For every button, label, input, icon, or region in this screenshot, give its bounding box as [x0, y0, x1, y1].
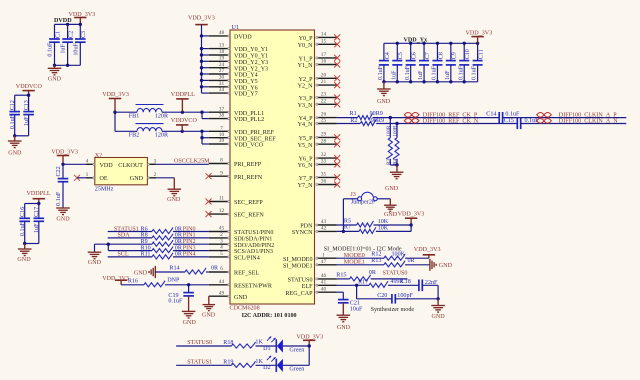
- svg-text:SCL/PIN4: SCL/PIN4: [234, 256, 260, 262]
- svg-text:100R: 100R: [394, 125, 399, 137]
- U1 pin 41 ELF: [302, 279, 337, 290]
- svg-text:ELF: ELF: [302, 284, 313, 290]
- svg-text:VDD_PLL1: VDD_PLL1: [234, 111, 264, 117]
- U1 pin 6 REF_SEL: [209, 266, 260, 277]
- wire FB2 to VDDVCO node: [162, 130, 209, 132]
- svg-text:R18: R18: [223, 340, 233, 346]
- U1 pin 9 PRI_REFN: [209, 170, 263, 181]
- junction VDD_Yx top rail: [409, 42, 412, 45]
- U1 pin 33 Y6_N: [298, 159, 337, 170]
- svg-text:OE: OE: [100, 176, 108, 182]
- capacitor C20 100pF (series): [377, 293, 413, 304]
- U1 pin 38 VDD_PLL2: [209, 113, 264, 124]
- no-connect X on oscillator OE: [74, 175, 80, 181]
- svg-text:43: 43: [321, 219, 327, 225]
- wire PDN to R5: [337, 224, 357, 226]
- junction ELF / C20 branch: [355, 284, 358, 287]
- wire Y4_P to R1: [337, 117, 358, 119]
- no-connect X on pin 15: [334, 41, 340, 47]
- junction VDD_Yx bottom rail: [396, 80, 399, 83]
- capacitor C6 0.1uF: [405, 43, 418, 82]
- capacitor C14 0.1uF (series): [486, 111, 520, 123]
- svg-text:VDDVCO: VDDVCO: [171, 118, 198, 124]
- svg-text:0.1uF: 0.1uF: [458, 65, 464, 80]
- svg-text:Synthesizer mode: Synthesizer mode: [371, 307, 415, 313]
- svg-text:R8: R8: [141, 233, 148, 239]
- svg-text:GND: GND: [234, 295, 248, 301]
- svg-text:STATUS1: STATUS1: [114, 226, 139, 232]
- svg-text:GND: GND: [130, 176, 144, 182]
- svg-text:GND: GND: [377, 99, 391, 105]
- junction bottom rail / C2: [66, 64, 69, 67]
- svg-text:Y0_P: Y0_P: [299, 36, 313, 42]
- U1 pin 39 VDD_VCO: [209, 138, 264, 149]
- power symbol VDD_3V3 (bead filters): [102, 92, 129, 112]
- svg-text:Y6_P: Y6_P: [299, 157, 313, 163]
- svg-text:SDI/SDA/PIN1: SDI/SDA/PIN1: [234, 237, 272, 243]
- junction power bus: [200, 85, 203, 88]
- svg-text:C18: C18: [401, 279, 411, 285]
- wire VDD to R16: [121, 284, 144, 286]
- svg-text:R15: R15: [336, 272, 346, 278]
- wire R19 to D2: [256, 364, 277, 366]
- U1 pin 11 SEC_REFP: [209, 196, 264, 207]
- capacitor C7 1uF: [418, 43, 431, 82]
- svg-text:Green: Green: [289, 367, 304, 373]
- svg-text:5: 5: [220, 251, 223, 257]
- U1 pin 5 SCL/PIN4: [209, 251, 260, 262]
- U1 pin 37 VDD_PLL1: [209, 106, 264, 117]
- resistor R18 1K: [223, 340, 263, 348]
- svg-text:7: 7: [220, 125, 223, 131]
- ground symbol GND (loop filter): [431, 306, 445, 320]
- U1 pin 15 Y0_N: [298, 38, 337, 49]
- oscillator pin 3: [147, 158, 156, 165]
- svg-text:6: 6: [220, 266, 223, 272]
- svg-text:OSCCLK25M: OSCCLK25M: [174, 159, 210, 165]
- op-amp U1 CDCM6208 body: [230, 30, 315, 304]
- svg-text:45: 45: [219, 226, 225, 232]
- wire STATUS1 to R19: [176, 364, 231, 366]
- no-connect X on pin 28: [334, 141, 340, 147]
- svg-text:DVDD: DVDD: [234, 35, 252, 41]
- wire power bus to U1 pin: [202, 79, 209, 81]
- jumper J3 Jumper2P: [350, 192, 377, 206]
- svg-text:VDD_3V3: VDD_3V3: [102, 276, 129, 282]
- svg-text:R7: R7: [344, 225, 351, 231]
- U1 pin 30 VDD_Y5: [209, 75, 258, 86]
- junction Y4_P / R3: [389, 116, 392, 119]
- no-connect X on pin 33: [334, 161, 340, 167]
- wire R13 to GND: [405, 264, 430, 266]
- capacitor C19 0.1uF: [168, 285, 194, 311]
- wire C20 branch down: [356, 285, 358, 299]
- wire R12 to VDD: [405, 257, 429, 259]
- U1 pin 2 SDI/SDA/PIN1: [209, 232, 272, 243]
- svg-text:VDD_3V3: VDD_3V3: [188, 16, 215, 22]
- svg-text:0.1uF: 0.1uF: [378, 65, 384, 80]
- oscillator pin 1: [86, 172, 95, 179]
- svg-text:Y3_P: Y3_P: [299, 96, 313, 102]
- U1 pin 36 Y7_N: [298, 179, 337, 190]
- svg-text:13: 13: [219, 43, 225, 49]
- no-connect X on pin 9: [206, 173, 212, 179]
- svg-text:U1: U1: [232, 25, 239, 31]
- svg-text:46: 46: [321, 273, 327, 279]
- junction PIN2 row / PIN3 tie: [107, 243, 110, 246]
- junction power bus: [200, 47, 203, 50]
- oscillator pin 4: [86, 158, 95, 165]
- svg-text:GND: GND: [432, 314, 446, 320]
- svg-text:9: 9: [220, 170, 223, 176]
- svg-text:0.1uF: 0.1uF: [505, 111, 520, 117]
- U1 pin 43 PDN: [300, 219, 337, 230]
- wire to U1 pins 10 and 39: [201, 131, 203, 144]
- svg-text:GND: GND: [202, 312, 216, 318]
- svg-text:18: 18: [219, 49, 225, 55]
- svg-text:R5: R5: [344, 218, 351, 224]
- svg-text:PDN: PDN: [300, 224, 313, 230]
- power symbol VDD_3V3 (U1 power bus): [188, 16, 215, 25]
- wire R5 to VDD: [374, 224, 412, 226]
- svg-text:10uF: 10uF: [350, 306, 363, 312]
- svg-text:VDD_3V3: VDD_3V3: [296, 334, 323, 340]
- svg-text:VDD_Y2_Y3: VDD_Y2_Y3: [234, 60, 268, 66]
- wire GND leg down: [437, 299, 439, 305]
- wire VDD_Yx top rail: [384, 42, 478, 44]
- wire CLKOUT to U1 pin 8, net OSCCLK25M: [156, 163, 209, 165]
- wire VDD_3V3 power bus vertical: [201, 25, 203, 94]
- svg-text:37: 37: [219, 106, 225, 112]
- U1 pin 40 REG_CAP: [285, 286, 336, 297]
- junction VDDVCO bottom rail / GND: [13, 134, 16, 137]
- svg-text:STATUS0: STATUS0: [187, 340, 212, 346]
- resistor R9 0R: [141, 239, 183, 246]
- svg-text:25MHz: 25MHz: [95, 186, 114, 192]
- svg-text:10K: 10K: [378, 219, 389, 225]
- capacitor C16 0.1uF: [19, 204, 30, 244]
- junction VDD_Yx bottom rail: [409, 80, 412, 83]
- svg-text:21: 21: [321, 79, 327, 85]
- no-connect X on pin 35: [334, 174, 340, 180]
- resistor R3 100R (termination): [386, 118, 392, 165]
- differential pair symbol REF_CK_P: [404, 113, 419, 118]
- svg-text:0.1uF: 0.1uF: [48, 42, 54, 57]
- power symbol VDDVCO (at FB2): [171, 118, 198, 131]
- junction power bus: [200, 60, 203, 63]
- junction power bus: [200, 34, 203, 37]
- svg-text:SCL: SCL: [118, 252, 129, 258]
- resistor R4 100R (termination): [393, 124, 399, 166]
- svg-text:I2C ADDR: 101 0100: I2C ADDR: 101 0100: [242, 313, 297, 319]
- svg-text:38: 38: [219, 113, 225, 119]
- svg-text:R2: R2: [350, 118, 357, 124]
- svg-text:49: 49: [219, 290, 225, 296]
- svg-text:GND: GND: [167, 197, 181, 203]
- wire C21 to GND: [342, 303, 344, 315]
- wire VDDPLL top rail: [25, 203, 39, 205]
- svg-text:1uF: 1uF: [24, 116, 30, 126]
- wire C15 to CLKIN_A_N: [521, 123, 627, 125]
- U1 pin 13 VDD_Y0_Y1: [209, 43, 268, 54]
- svg-text:R19: R19: [223, 359, 233, 365]
- svg-text:VDDPLL: VDDPLL: [27, 191, 51, 197]
- wire power bus to U1 pin: [202, 60, 209, 62]
- junction VDD_Yx top rail: [476, 42, 479, 45]
- wire SI_MODE1 to R13, net MODE1: [337, 264, 384, 266]
- svg-text:C4: C4: [385, 52, 391, 59]
- svg-text:GND: GND: [48, 76, 62, 82]
- svg-text:Y2_P: Y2_P: [299, 77, 313, 83]
- svg-text:10: 10: [219, 132, 225, 138]
- svg-text:29: 29: [321, 132, 327, 138]
- wire power bus to U1 pin: [202, 92, 209, 94]
- U1 pin 1 SI_MODE0: [283, 252, 337, 263]
- U1 pin 29 Y5_P: [299, 132, 337, 143]
- svg-text:Y3_N: Y3_N: [298, 103, 313, 109]
- svg-text:VDD_VCO: VDD_VCO: [234, 143, 264, 149]
- wire X to OE pin: [77, 177, 86, 179]
- svg-text:120R: 120R: [155, 133, 169, 139]
- wire Y4_N to R2: [337, 123, 360, 125]
- capacitor C21 10uF: [338, 300, 363, 313]
- svg-text:100pF: 100pF: [397, 293, 413, 299]
- ground symbol GND (oscillator): [167, 189, 181, 203]
- svg-text:90R9: 90R9: [370, 111, 383, 117]
- capacitor C1 0.1uF: [48, 24, 62, 65]
- junction VDD_Yx bottom rail: [382, 80, 385, 83]
- svg-text:VDD_3V3: VDD_3V3: [414, 247, 441, 253]
- svg-text:19: 19: [219, 55, 225, 61]
- no-connect X on pin 17: [334, 55, 340, 61]
- no-connect X on pin 23: [334, 95, 340, 101]
- svg-text:R16: R16: [128, 279, 138, 285]
- svg-text:VDD_Y0_Y1: VDD_Y0_Y1: [234, 47, 268, 53]
- wire DVDD bottom rail: [55, 64, 81, 66]
- power symbol VDDPLL: [27, 191, 51, 203]
- wire U1 pin 49 to GND: [208, 296, 210, 304]
- svg-text:PRI_REFN: PRI_REFN: [234, 175, 263, 181]
- LED D2 Green: [263, 356, 304, 373]
- junction power bus: [200, 72, 203, 75]
- ground symbol GND (VDDPLL bank): [17, 244, 31, 264]
- svg-text:C17: C17: [34, 207, 40, 217]
- power symbol VDDVCO: [16, 84, 43, 95]
- svg-text:44: 44: [219, 279, 225, 285]
- svg-text:4: 4: [86, 158, 89, 164]
- capacitor C9 1uF: [445, 43, 458, 82]
- svg-text:47: 47: [321, 259, 327, 265]
- svg-text:GND: GND: [17, 257, 31, 263]
- svg-text:C5: C5: [398, 52, 404, 59]
- wire PIN2 row to GND leg: [94, 244, 96, 252]
- U1 pin 47 SI_MODE1: [283, 259, 337, 270]
- wire join to GND: [396, 165, 398, 172]
- junction D1 / VDD: [308, 344, 311, 347]
- resistor R6 0R: [141, 226, 183, 233]
- svg-text:1uF: 1uF: [61, 44, 67, 54]
- svg-text:VDD_Y6: VDD_Y6: [234, 85, 258, 91]
- junction VDD_Yx bottom rail: [436, 80, 439, 83]
- svg-text:J3: J3: [350, 192, 355, 198]
- junction VDD_Yx top rail: [436, 42, 439, 45]
- junction GND leg / C20: [436, 297, 439, 300]
- no-connect X on pin 21: [334, 82, 340, 88]
- svg-text:3: 3: [154, 158, 157, 164]
- svg-text:VDD_Y7: VDD_Y7: [234, 92, 258, 98]
- svg-text:VDD_3V3: VDD_3V3: [466, 30, 493, 36]
- junction VDDPLL node / pin38 branch: [200, 111, 203, 114]
- svg-text:REG_CAP: REG_CAP: [285, 291, 313, 297]
- resistor R7 10K: [344, 225, 389, 234]
- wire R9 to U1: [173, 243, 209, 245]
- svg-text:STATUS1/PIN0: STATUS1/PIN0: [234, 230, 273, 236]
- U1 pin 35 Y7_P: [299, 172, 337, 183]
- svg-text:SDO/AD0/PIN2: SDO/AD0/PIN2: [234, 243, 274, 249]
- svg-text:1K: 1K: [255, 340, 263, 346]
- svg-text:Y4_N: Y4_N: [298, 122, 313, 128]
- junction VDDPLL rail / stem: [37, 202, 40, 205]
- U1 pin 27 VDD_Y4: [209, 68, 258, 79]
- wire GND to R14: [155, 271, 185, 273]
- svg-text:120R: 120R: [155, 114, 169, 120]
- resistor R15 0R: [336, 270, 377, 281]
- svg-text:DNP: DNP: [167, 277, 180, 283]
- U1 pin 21 Y2_N: [298, 79, 337, 90]
- wire SI_MODE0 to R12, net MODE0: [337, 257, 384, 259]
- U1 pin 14 Y0_P: [299, 32, 337, 43]
- ground symbol GND (Y4 termination): [385, 172, 403, 192]
- svg-text:CDCM6208: CDCM6208: [230, 306, 260, 312]
- svg-text:VDD_Y4: VDD_Y4: [234, 73, 258, 79]
- svg-text:X?: X?: [95, 153, 102, 159]
- svg-text:1uF: 1uF: [34, 223, 40, 233]
- resistor R5 10K: [344, 218, 389, 227]
- U1 pin 20 Y2_P: [299, 72, 337, 83]
- wire to FB1: [115, 111, 137, 113]
- wire junction to C20: [357, 298, 392, 300]
- wire VDD_Yx bottom rail: [384, 81, 478, 83]
- svg-text:R3: R3: [387, 158, 392, 164]
- wire VDDPLL bottom rail: [25, 243, 39, 245]
- wire VDD_3V3 vertical to FB2: [114, 112, 116, 131]
- svg-text:24: 24: [219, 62, 225, 68]
- resistor R17 499R: [358, 279, 404, 287]
- svg-text:STATUS1: STATUS1: [187, 359, 212, 365]
- svg-text:VDDVCO: VDDVCO: [16, 84, 43, 90]
- junction VDD_Yx bottom rail: [463, 80, 466, 83]
- svg-text:42: 42: [321, 226, 327, 232]
- capacitor C18 22nF (series): [401, 279, 438, 291]
- junction FB1 wire / VDDPLL stem: [181, 111, 184, 114]
- svg-text:VDD_Y5: VDD_Y5: [234, 79, 258, 85]
- svg-text:C8: C8: [438, 52, 444, 59]
- U1 pin 49 GND: [209, 290, 248, 301]
- svg-text:C6: C6: [412, 52, 418, 59]
- svg-text:R6: R6: [141, 226, 148, 232]
- ground symbol GND (VDDVCO bank): [8, 136, 22, 157]
- wire C18 to GND leg: [422, 284, 438, 286]
- svg-text:0R: 0R: [211, 265, 219, 271]
- junction DVDD rail / C3: [79, 23, 82, 26]
- U1 pin 8 PRI_REFP: [209, 158, 262, 169]
- capacitor C15 0.1uF (series): [504, 118, 539, 129]
- wire VDDVCO top rail: [15, 94, 29, 96]
- svg-text:VDD: VDD: [100, 163, 114, 169]
- wire oscillator GND pin down: [156, 177, 174, 179]
- wire to FB2: [115, 130, 137, 132]
- resistor R14 0R: [169, 265, 219, 274]
- svg-text:Y1_P: Y1_P: [299, 57, 313, 63]
- svg-text:Jumper2P: Jumper2P: [351, 200, 376, 206]
- svg-text:GND: GND: [88, 260, 102, 266]
- wire R14 to U1 pin 6: [206, 271, 209, 273]
- svg-text:C16: C16: [20, 207, 26, 217]
- junction VDD / C22: [61, 163, 64, 166]
- differential pair symbol CLKIN_A_P: [537, 113, 552, 118]
- svg-text:1: 1: [322, 252, 325, 258]
- svg-text:PRI_REFP: PRI_REFP: [234, 162, 262, 168]
- svg-text:VDD_PRI_REF: VDD_PRI_REF: [234, 130, 275, 136]
- power symbol VDD_3V3 (DVDD bank): [69, 12, 96, 24]
- power symbol VDD_3V3 (LEDs): [296, 334, 323, 346]
- no-connect X on pin 36: [334, 182, 340, 188]
- resistor R2 90R9: [350, 118, 384, 126]
- svg-text:0R: 0R: [408, 258, 416, 264]
- svg-text:VDD_3V3: VDD_3V3: [398, 212, 425, 218]
- svg-text:0.1uF: 0.1uF: [56, 191, 62, 206]
- wire STATUS0 to R18: [176, 345, 231, 347]
- wire R1 to C14: [373, 117, 500, 119]
- svg-text:R1: R1: [350, 111, 357, 117]
- junction power bus: [200, 66, 203, 69]
- svg-text:GND: GND: [183, 320, 197, 326]
- svg-text:R10: R10: [141, 245, 151, 251]
- svg-text:C15: C15: [504, 118, 514, 124]
- capacitor C3 10uF: [73, 24, 87, 65]
- ground symbol GND (J3): [384, 205, 398, 218]
- svg-text:23: 23: [321, 92, 327, 98]
- svg-text:1uF: 1uF: [445, 70, 451, 80]
- U1 pin 48 DVDD: [209, 30, 252, 41]
- wire PIN0 row: [108, 231, 152, 233]
- svg-text:GND: GND: [384, 212, 398, 218]
- svg-text:8: 8: [220, 158, 223, 164]
- svg-text:Y7_N: Y7_N: [298, 183, 313, 189]
- capacitor C13 1uF: [23, 95, 34, 136]
- svg-text:C14: C14: [486, 111, 496, 117]
- capacitor C22 0.1uF: [56, 164, 68, 208]
- U1 pin 19 VDD_Y2_Y3: [209, 55, 268, 66]
- svg-text:C13: C13: [24, 100, 30, 110]
- svg-text:R14: R14: [169, 265, 179, 271]
- svg-text:C22: C22: [56, 166, 62, 176]
- wire D2 to VDD node: [283, 364, 309, 366]
- svg-text:33: 33: [321, 159, 327, 165]
- svg-text:Y2_N: Y2_N: [298, 84, 313, 90]
- no-connect X on pin 32: [334, 155, 340, 161]
- wire R18 to D1: [256, 345, 277, 347]
- svg-text:0R: 0R: [369, 270, 377, 276]
- resistor R10 0R: [141, 245, 183, 252]
- junction RESETN / C19: [187, 283, 190, 286]
- svg-text:SEC_REFN: SEC_REFN: [234, 213, 264, 219]
- capacitor C17 1uF: [34, 204, 45, 244]
- svg-text:C20: C20: [377, 293, 387, 299]
- oscillator pin 2: [147, 172, 156, 179]
- resistor R11 0R: [141, 252, 183, 259]
- wire power bus to U1 pin: [202, 86, 209, 88]
